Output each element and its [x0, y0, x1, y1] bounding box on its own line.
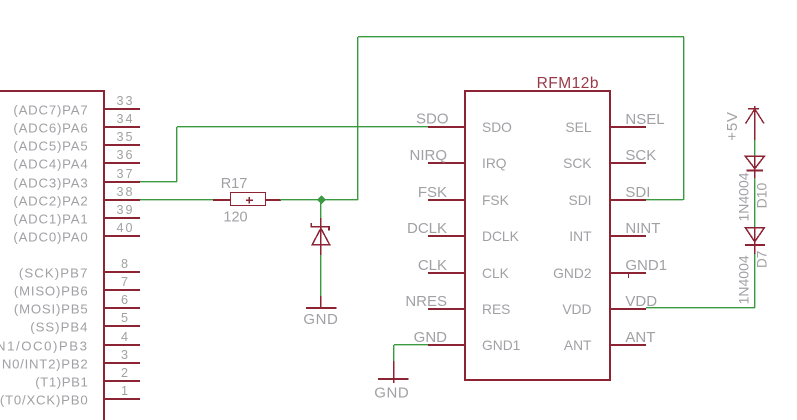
svg-text:4: 4	[121, 330, 130, 344]
svg-text:GND1: GND1	[482, 338, 520, 353]
pin 6 (MOSI)PB5	[14, 293, 140, 316]
pin 2 (T1)PB1	[35, 366, 140, 389]
ground symbol below diode	[303, 296, 338, 328]
wire D10 to D7	[754, 178, 756, 227]
pin 38 (ADC2)PA2	[13, 185, 140, 208]
svg-text:36: 36	[116, 148, 134, 162]
svg-text:1: 1	[121, 384, 130, 398]
svg-text:40: 40	[116, 221, 134, 235]
wire +5V to D10	[754, 140, 756, 156]
svg-text:DCLK: DCLK	[407, 220, 447, 237]
svg-text:5: 5	[121, 311, 130, 325]
svg-text:(ADC5)PA5: (ADC5)PA5	[13, 138, 88, 153]
svg-text:SDO: SDO	[416, 111, 449, 128]
svg-text:RES: RES	[482, 302, 510, 317]
svg-text:(ADC7)PA7: (ADC7)PA7	[13, 102, 88, 117]
pin 40 (ADC0)PA0	[13, 221, 140, 244]
+5V supply symbol	[724, 106, 764, 141]
wire pin 38 to R17	[140, 199, 214, 201]
wire junction down to protection diode	[320, 200, 322, 218]
svg-text:NSEL: NSEL	[625, 111, 664, 128]
svg-text:8: 8	[121, 257, 130, 271]
svg-text:NIRQ: NIRQ	[410, 147, 448, 164]
pin 4 (AIN1/OC0)PB3	[0, 330, 140, 353]
svg-text:FSK: FSK	[482, 193, 510, 208]
pin 1 (T0/XCK)PB0	[0, 384, 140, 407]
RFM pin RES	[405, 293, 510, 317]
svg-text:SCK: SCK	[563, 156, 592, 171]
svg-text:D10: D10	[754, 183, 770, 209]
svg-text:+5V: +5V	[724, 111, 741, 141]
svg-text:GND: GND	[374, 384, 409, 401]
svg-text:1N4004: 1N4004	[735, 172, 751, 221]
pin 34 (ADC6)PA6	[13, 112, 140, 135]
diode D7 1N4004	[735, 227, 769, 304]
svg-text:2: 2	[121, 366, 130, 380]
svg-text:3: 3	[121, 348, 130, 362]
wire diode to ground	[320, 255, 322, 296]
pin 33 (ADC7)PA7	[13, 94, 140, 117]
svg-text:(ADC3)PA3: (ADC3)PA3	[13, 175, 88, 190]
zener diode (unnamed)	[311, 218, 330, 255]
svg-text:7: 7	[121, 275, 130, 289]
svg-text:SDO: SDO	[482, 120, 512, 135]
pin 36 (ADC4)PA4	[13, 148, 140, 171]
RFM pin SDI	[569, 184, 651, 208]
IC U1 microcontroller body (partially off-canvas)	[0, 90, 105, 420]
RFM pin SDO	[428, 120, 512, 135]
svg-text:SDI: SDI	[569, 193, 592, 208]
pin 8 (SCK)PB7	[19, 257, 140, 280]
svg-text:FSK: FSK	[418, 184, 447, 201]
svg-text:NRES: NRES	[405, 293, 447, 310]
pin 5 (SS)PB4	[30, 311, 140, 334]
svg-text:37: 37	[116, 167, 134, 181]
svg-text:(AIN1/OC0)PB3: (AIN1/OC0)PB3	[0, 338, 89, 353]
svg-text:(T0/XCK)PB0: (T0/XCK)PB0	[0, 392, 89, 407]
wire R17 to junction, corner up, top run, down to SDI	[280, 37, 684, 200]
diode D10 1N4004	[735, 156, 769, 222]
RFM pin GND1	[414, 329, 521, 353]
svg-text:GND: GND	[414, 329, 448, 346]
pin 35 (ADC5)PA5	[13, 130, 140, 153]
svg-text:(MOSI)PB5: (MOSI)PB5	[14, 301, 89, 316]
svg-text:6: 6	[121, 293, 130, 307]
svg-text:VDD: VDD	[562, 302, 591, 317]
svg-text:NINT: NINT	[625, 220, 660, 237]
svg-text:(SS)PB4: (SS)PB4	[30, 319, 88, 334]
svg-text:(T1)PB1: (T1)PB1	[35, 374, 88, 389]
pin 3 (AIN0/INT2)PB2	[0, 348, 140, 371]
svg-text:D7: D7	[755, 251, 770, 268]
svg-text:R17: R17	[221, 176, 248, 192]
svg-text:(SCK)PB7: (SCK)PB7	[19, 265, 89, 280]
wire VDD to +5V rail	[646, 254, 755, 308]
svg-text:ANT: ANT	[625, 329, 655, 346]
svg-text:ANT: ANT	[564, 338, 592, 353]
RFM pin FSK	[418, 184, 510, 208]
svg-text:CLK: CLK	[482, 266, 510, 281]
svg-text:120: 120	[223, 210, 247, 226]
svg-text:1N4004: 1N4004	[735, 255, 751, 304]
svg-text:(ADC2)PA2: (ADC2)PA2	[13, 193, 88, 208]
RFM pin CLK	[418, 257, 510, 281]
svg-text:39: 39	[116, 203, 134, 217]
wire RFM GND1 to ground	[394, 345, 428, 361]
svg-text:GND2: GND2	[553, 266, 591, 281]
RFM pin DCLK	[407, 220, 520, 244]
IC U2 RFM12b body	[464, 90, 611, 381]
svg-text:(ADC6)PA6: (ADC6)PA6	[13, 120, 88, 135]
RFM pin SEL	[565, 111, 664, 135]
resistor R17	[213, 176, 281, 226]
svg-text:(ADC0)PA0: (ADC0)PA0	[13, 229, 88, 244]
svg-text:35: 35	[116, 130, 134, 144]
svg-text:SEL: SEL	[565, 120, 591, 135]
svg-text:CLK: CLK	[418, 257, 447, 274]
RFM pin GND2	[553, 257, 667, 281]
svg-text:(ADC1)PA1: (ADC1)PA1	[13, 211, 88, 226]
ground symbol below RFM	[374, 361, 409, 401]
pin 7 (MISO)PB6	[14, 275, 140, 298]
svg-text:IRQ: IRQ	[482, 156, 507, 171]
RFM pin IRQ	[410, 147, 507, 171]
svg-text:(AIN0/INT2)PB2: (AIN0/INT2)PB2	[0, 356, 89, 371]
RFM pin ANT	[564, 329, 656, 353]
svg-text:34: 34	[116, 112, 134, 126]
svg-text:33: 33	[116, 94, 134, 108]
svg-text:(ADC4)PA4: (ADC4)PA4	[13, 156, 88, 171]
svg-text:(MISO)PB6: (MISO)PB6	[14, 283, 89, 298]
svg-text:38: 38	[116, 185, 134, 199]
svg-text:GND: GND	[303, 311, 338, 328]
svg-text:DCLK: DCLK	[482, 229, 520, 244]
pin 39 (ADC1)PA1	[13, 203, 140, 226]
pin 37 (ADC3)PA3	[13, 167, 140, 190]
junction node	[317, 195, 326, 204]
svg-text:RFM12b: RFM12b	[537, 75, 599, 92]
svg-text:SCK: SCK	[625, 147, 656, 164]
RFM pin VDD	[562, 293, 657, 317]
RFM pin INT	[569, 220, 660, 244]
RFM pin SCK	[563, 147, 656, 171]
wire net SDO: pin 37 to RFM SDO pin	[140, 127, 428, 182]
svg-text:SDI: SDI	[625, 184, 650, 201]
svg-text:INT: INT	[569, 229, 592, 244]
svg-text:GND1: GND1	[625, 257, 667, 274]
